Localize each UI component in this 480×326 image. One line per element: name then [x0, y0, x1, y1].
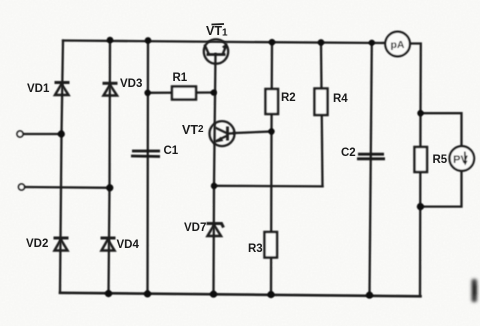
node bottom C2 column [366, 292, 373, 299]
wire R4 column [321, 42, 323, 186]
wire bottom rail [60, 293, 421, 297]
node R5 PV bottom junction [417, 203, 424, 210]
diode VD2 [54, 238, 69, 251]
wire VT1-VT2 base column [214, 54, 216, 294]
ammeter PA (µA meter) [385, 32, 410, 57]
node bottom R3 column [267, 291, 274, 298]
svg-text:C1: C1 [164, 145, 179, 157]
resistor R2 [266, 89, 279, 114]
node bottom VD7 column [210, 291, 217, 298]
wire emitter row [214, 185, 323, 188]
diode VD1 [55, 83, 70, 96]
node collector R2 junction [268, 128, 274, 134]
resistor R4 [315, 89, 328, 116]
svg-text:VD2: VD2 [26, 238, 48, 250]
svg-text:VD3: VD3 [120, 78, 142, 90]
svg-text:VD1: VD1 [27, 83, 50, 95]
resistor R5 [415, 147, 428, 172]
node top R2 column [269, 39, 276, 46]
node bottom C1 column [144, 290, 151, 297]
node top C1 column [145, 37, 152, 44]
svg-text:R5: R5 [433, 154, 448, 166]
diode VD4 [101, 238, 116, 251]
wire PV bottom branch [421, 171, 462, 207]
svg-text:R1: R1 [173, 72, 188, 84]
wire top rail [63, 41, 386, 44]
voltmeter PV [450, 146, 475, 171]
svg-text:R2: R2 [281, 92, 296, 104]
svg-text:PV: PV [453, 154, 468, 166]
node lower input junction [106, 184, 113, 191]
resistor R1 [172, 87, 196, 100]
wire VD3/VD4 column [109, 40, 111, 294]
wire R5 column [419, 113, 422, 296]
svg-text:VD7: VD7 [184, 222, 206, 234]
node top R4 column [318, 39, 325, 46]
node R1 left [144, 90, 150, 96]
svg-text:C2: C2 [341, 147, 356, 159]
resistor R3 [265, 232, 278, 258]
wire PV top branch [421, 113, 462, 146]
wire VT2 collector row [234, 132, 272, 134]
wire lower input lead [25, 186, 111, 189]
wire C1 column [146, 40, 149, 294]
wire upper input lead [23, 133, 62, 135]
wire R1 row [148, 91, 214, 94]
node R1 right [211, 89, 217, 95]
zener diode VD7 [207, 224, 224, 237]
scan artifact right edge [472, 279, 478, 302]
wire C2 column [370, 43, 372, 296]
diode VD3 [103, 83, 118, 95]
transistor VT2 [210, 121, 235, 146]
input terminal upper [17, 131, 23, 137]
node meter input [369, 40, 375, 46]
wire meter output elbow [410, 44, 421, 114]
svg-text:R4: R4 [333, 93, 348, 105]
node bottom VD4 column [105, 290, 112, 297]
node upper input junction [58, 130, 65, 137]
transistor VT1 [204, 39, 228, 63]
svg-text:R3: R3 [248, 243, 263, 255]
capacitor C2 [357, 154, 385, 159]
node top VD3 column [107, 37, 114, 44]
svg-text:pA: pA [391, 39, 405, 51]
node R5 PV top junction [417, 110, 423, 116]
node emitter row left [211, 183, 217, 189]
svg-text:VT2: VT2 [182, 123, 204, 137]
input terminal lower [19, 184, 25, 190]
label VT1 overline [212, 23, 225, 26]
wire left column VD1/VD2 [60, 41, 63, 293]
capacitor C1 [131, 151, 160, 157]
wire R2/R3 column [271, 42, 272, 294]
svg-text:VD4: VD4 [117, 239, 140, 251]
